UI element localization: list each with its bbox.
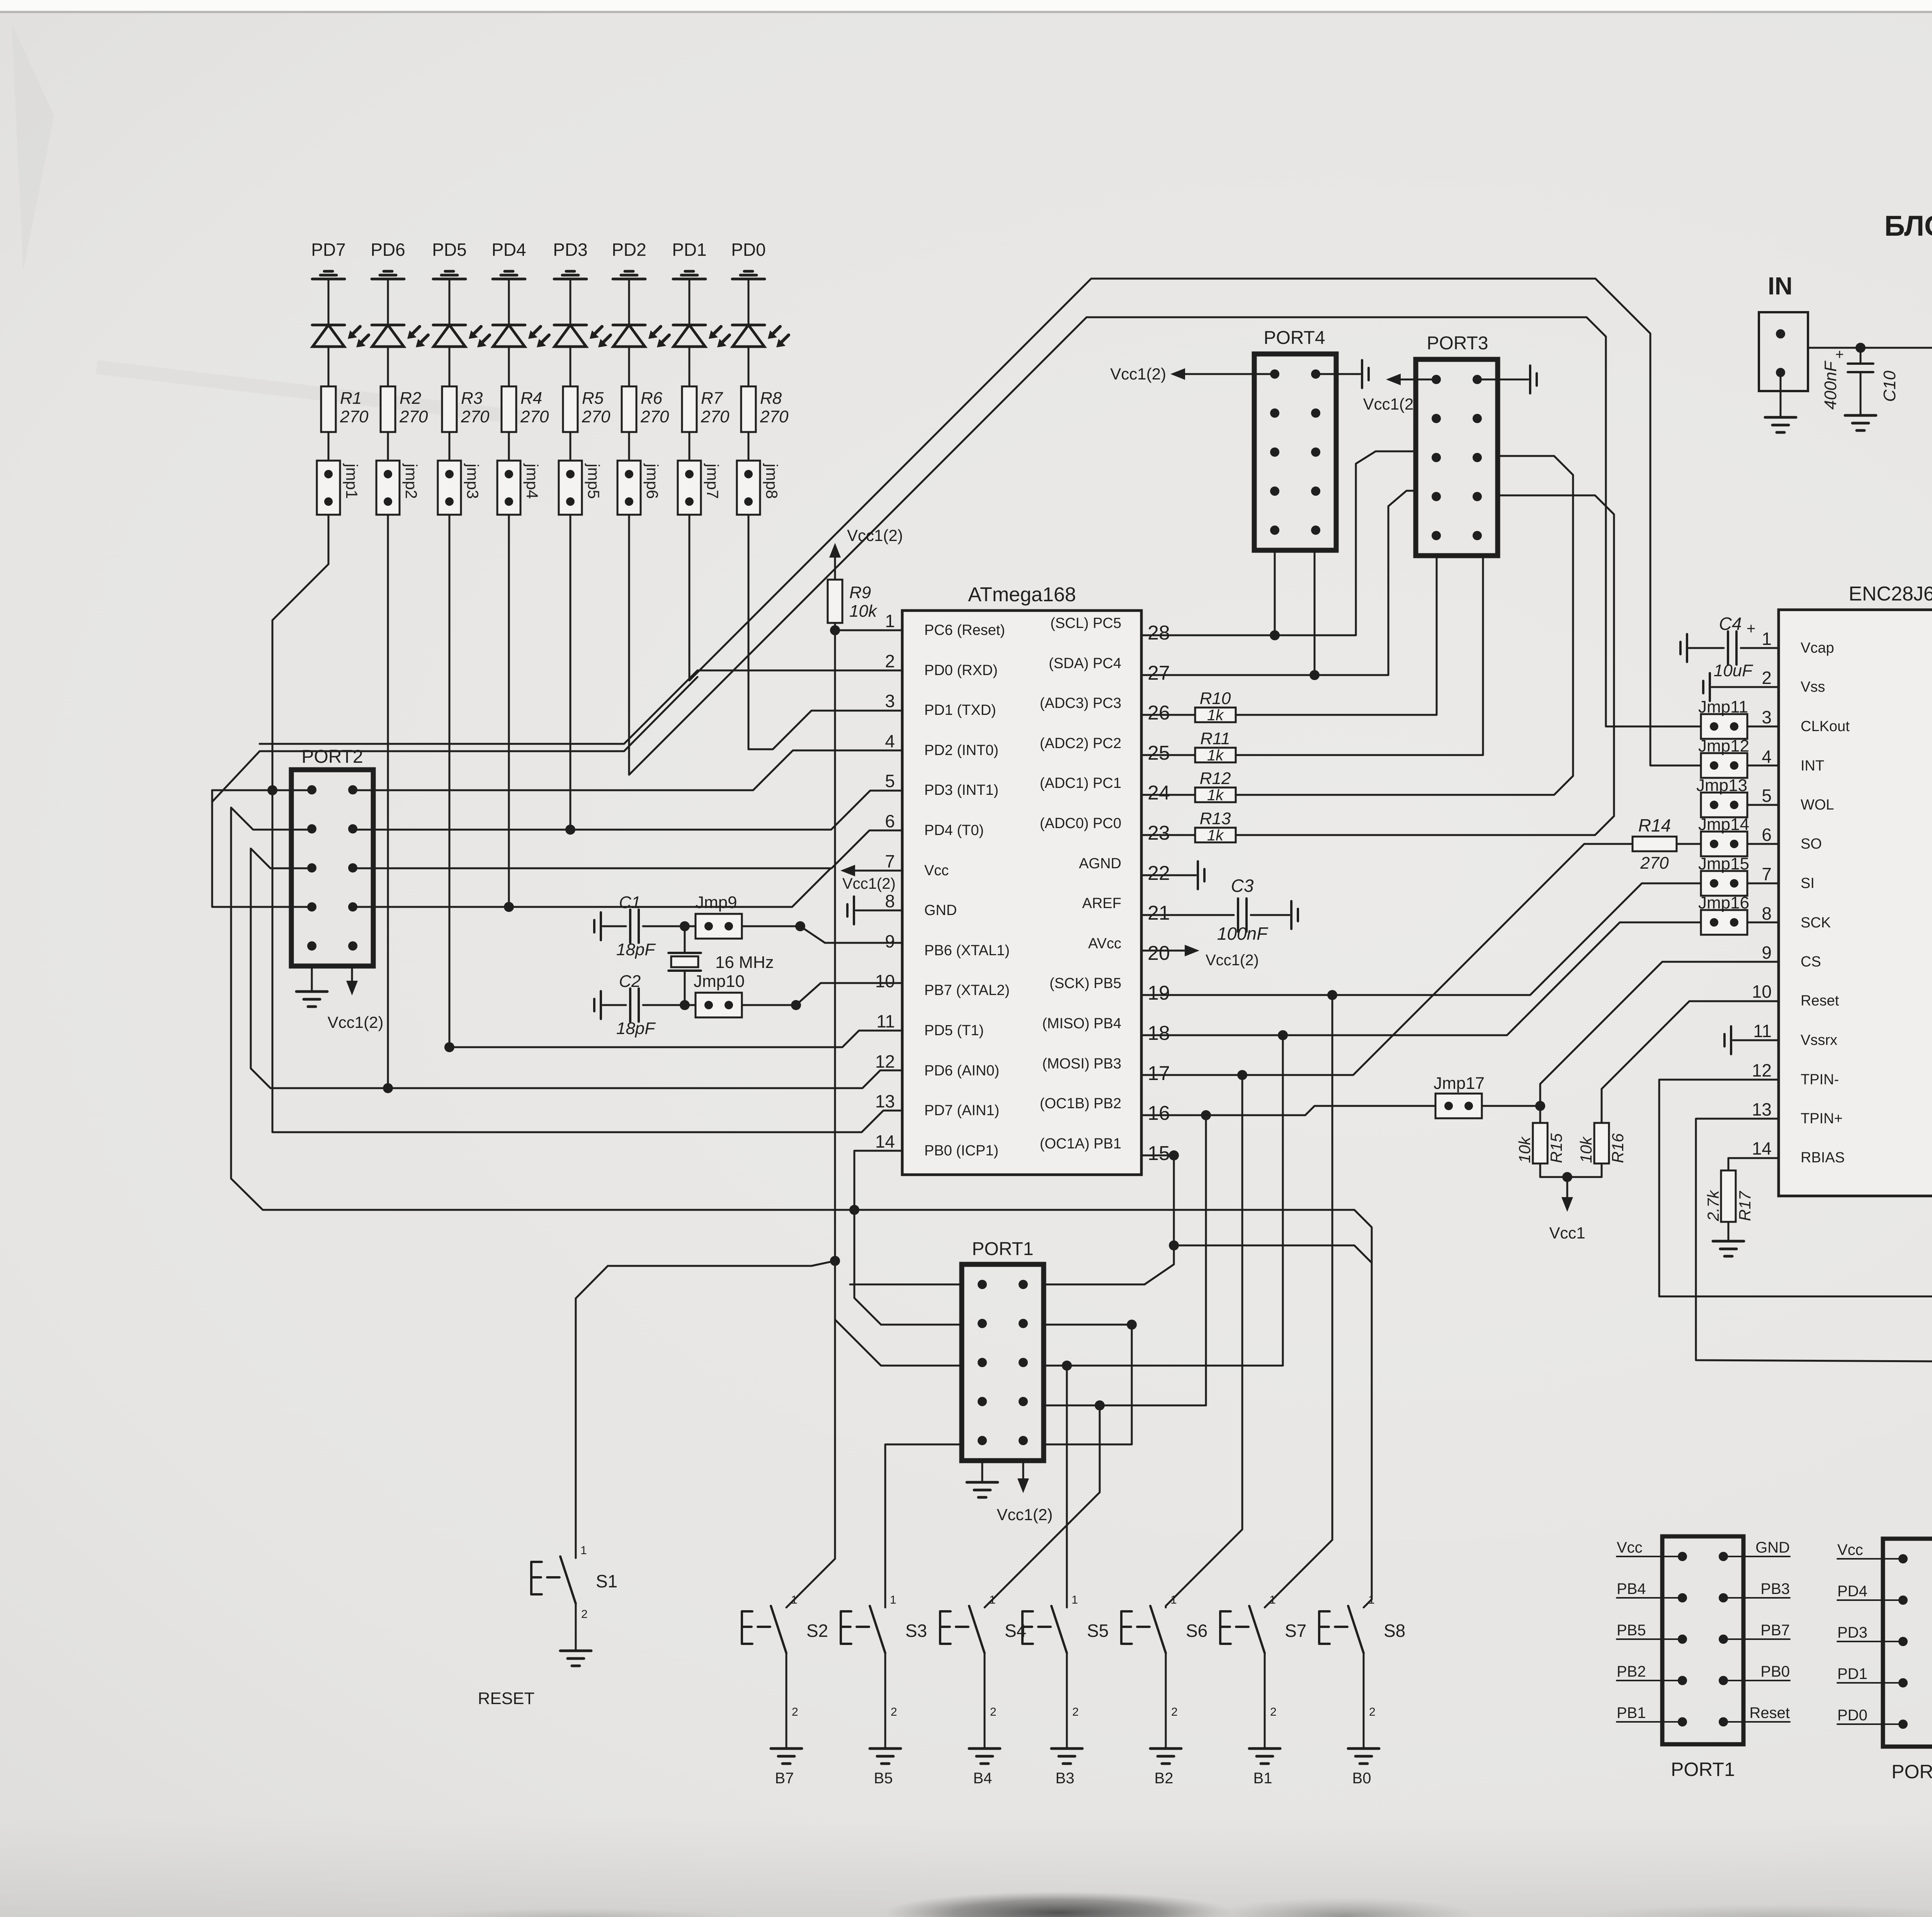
svg-text:1: 1: [890, 1594, 896, 1606]
jumper Jmp10: [696, 993, 742, 1017]
svg-text:PD0 (RXD): PD0 (RXD): [924, 662, 998, 679]
svg-text:PD1 (TXD): PD1 (TXD): [924, 702, 996, 718]
svg-text:(ADC3) PC3: (ADC3) PC3: [1040, 695, 1121, 711]
svg-text:+: +: [1835, 347, 1844, 363]
ground ENC pin2 Vss: [1709, 673, 1711, 701]
ground C1: [600, 912, 602, 940]
svg-text:PD5 (T1): PD5 (T1): [924, 1022, 984, 1039]
svg-text:SI: SI: [1801, 875, 1815, 891]
svg-text:GND: GND: [924, 902, 957, 919]
svg-text:R6: R6: [641, 389, 663, 408]
svg-text:270: 270: [1640, 854, 1669, 873]
wire R11 to PORT3 ADC2: [1236, 555, 1483, 755]
wire ATmega pin14 stub: [854, 1151, 902, 1210]
ground PD6 LED anode: [384, 270, 392, 273]
svg-text:RBIAS: RBIAS: [1801, 1150, 1845, 1166]
svg-text:(MOSI) PB3: (MOSI) PB3: [1042, 1056, 1121, 1072]
svg-text:PD2 (INT0): PD2 (INT0): [924, 742, 998, 759]
svg-text:(SCL) PC5: (SCL) PC5: [1050, 615, 1121, 631]
svg-text:1: 1: [885, 611, 895, 631]
svg-text:Jmp16: Jmp16: [1698, 893, 1749, 912]
ground S5: [1051, 1747, 1082, 1750]
junction: [1278, 1030, 1288, 1040]
jumper jmp6: [617, 461, 641, 515]
wire IN ground: [1780, 373, 1782, 417]
power Vcc1 below R15/R16: [1566, 1177, 1568, 1202]
svg-text:R16: R16: [1609, 1133, 1627, 1163]
svg-text:S7: S7: [1285, 1621, 1306, 1641]
svg-text:PB3: PB3: [1760, 1580, 1790, 1597]
power Vcc1(2) PORT2 pin10: [351, 966, 353, 985]
scan smudges bottom edge: [885, 1891, 1233, 1917]
wire: [748, 347, 750, 386]
svg-text:ENC28J60: ENC28J60: [1849, 583, 1932, 605]
svg-text:22: 22: [1148, 862, 1170, 885]
wire: [628, 432, 630, 461]
resistor R9 10k: [828, 580, 842, 623]
LED D1 (PD7): [312, 324, 345, 327]
wire ENC pin12 TPIN- loop: [1659, 1080, 1932, 1296]
wire PORT4 pin10 drop: [1314, 550, 1316, 675]
wire PORT4 pin2 to ground: [1316, 373, 1360, 375]
svg-text:1: 1: [989, 1594, 996, 1606]
wire pin27 SDA: [1141, 491, 1416, 675]
capacitor C4 10uF: [1686, 634, 1688, 662]
svg-text:1: 1: [1368, 1594, 1375, 1606]
svg-text:jmp3: jmp3: [464, 463, 482, 499]
wire pin19 SCK to Jmp15: [1141, 883, 1702, 995]
svg-text:PD3: PD3: [1837, 1624, 1867, 1641]
svg-text:1: 1: [1170, 1594, 1177, 1606]
svg-text:1k: 1k: [1207, 747, 1224, 764]
resistor R7 270: [682, 386, 697, 432]
svg-text:Vss: Vss: [1801, 679, 1825, 695]
svg-text:R1: R1: [340, 389, 362, 408]
wire R10 to PORT3 ADC3: [1236, 555, 1437, 715]
svg-text:11: 11: [1753, 1021, 1772, 1041]
junction: [1062, 1361, 1072, 1371]
resistor R17 2.7k: [1728, 1158, 1779, 1170]
wire PORT1 row1 left: [850, 1284, 962, 1286]
jumper jmp3: [438, 461, 461, 515]
junction: [791, 1000, 801, 1010]
svg-text:+: +: [1747, 620, 1755, 637]
svg-text:C4: C4: [1719, 614, 1742, 634]
svg-text:R2: R2: [400, 389, 421, 408]
svg-text:R15: R15: [1547, 1133, 1565, 1163]
wire ENC pin13 TPIN+ loop: [1696, 1119, 1932, 1363]
jumper Jmp16: [1701, 910, 1747, 935]
ground PORT2 pin9: [311, 966, 313, 992]
svg-text:18pF: 18pF: [616, 1019, 656, 1038]
junction: [1201, 1110, 1211, 1120]
pinout PORT2 label PD3: [1837, 1641, 1903, 1642]
svg-text:Vcc: Vcc: [1837, 1541, 1863, 1558]
wire Jmp9 to pin9: [742, 926, 902, 943]
wire ATmega pin8 GND: [856, 910, 902, 912]
svg-text:100nF: 100nF: [1217, 924, 1269, 944]
wire: [643, 1004, 696, 1006]
svg-text:270: 270: [399, 407, 428, 426]
wire: [748, 432, 750, 461]
svg-text:R7: R7: [701, 389, 723, 408]
wire: [603, 925, 626, 927]
svg-text:10k: 10k: [1515, 1136, 1534, 1163]
svg-text:C3: C3: [1231, 876, 1254, 896]
svg-text:PD1: PD1: [672, 240, 706, 260]
wire PORT2 row1 horizontal: [212, 789, 312, 791]
wire IN output: [1808, 347, 1932, 349]
jumper jmp2: [376, 461, 400, 515]
svg-text:4: 4: [1762, 747, 1772, 767]
jumper Jmp12: [1701, 753, 1747, 778]
svg-text:INT: INT: [1801, 758, 1824, 774]
LED D2 (PD6): [372, 324, 404, 327]
resistor R14 270: [1633, 837, 1677, 851]
ground ATmega pin8: [853, 896, 855, 924]
wire PORT2 row1 to ATmega pin4 (PD2/INT0): [212, 751, 624, 802]
svg-text:24: 24: [1148, 782, 1170, 804]
wire AREF pin21: [1141, 914, 1234, 916]
capacitor C3 100nF: [1237, 898, 1239, 932]
svg-text:2.7k: 2.7k: [1704, 1190, 1722, 1221]
svg-text:PD6 (AIN0): PD6 (AIN0): [924, 1063, 999, 1079]
svg-text:SO: SO: [1801, 836, 1822, 852]
svg-text:15: 15: [1148, 1142, 1170, 1165]
jumper Jmp15: [1701, 871, 1747, 896]
svg-text:PORT2: PORT2: [1891, 1761, 1932, 1783]
svg-text:TPIN-: TPIN-: [1801, 1072, 1839, 1088]
svg-text:CLKout: CLKout: [1801, 718, 1850, 735]
wire PORT1 row5 reset: [1043, 1325, 1132, 1444]
svg-text:PD4: PD4: [1837, 1583, 1867, 1600]
svg-text:(ADC0) PC0: (ADC0) PC0: [1040, 815, 1121, 832]
junction: [565, 825, 575, 835]
wire branch to S8 rail: [1174, 1245, 1372, 1263]
svg-text:2: 2: [990, 1706, 997, 1718]
pinout PORT1 label PB1: [1617, 1721, 1682, 1723]
svg-text:R10: R10: [1200, 689, 1231, 708]
wire: [570, 432, 571, 461]
wire pin19 drop to S7: [1265, 995, 1332, 1607]
svg-text:БЛОК ПИТАНИЯ: БЛОК ПИТАНИЯ: [1884, 210, 1932, 242]
wire Jmp17 to R15: [1482, 1105, 1540, 1107]
svg-text:(SCK) PB5: (SCK) PB5: [1049, 975, 1121, 992]
svg-text:16: 16: [1148, 1102, 1170, 1124]
svg-text:1: 1: [791, 1594, 798, 1606]
svg-text:R9: R9: [849, 583, 871, 602]
resistor R13 1k: [1141, 834, 1195, 836]
svg-text:jmp1: jmp1: [343, 463, 361, 499]
power AVcc pin20 Vcc1(2): [1141, 950, 1189, 952]
wire PORT2 row2 to ATmega pin5: [231, 808, 312, 830]
ground PD1 LED anode: [685, 270, 694, 273]
svg-text:(MISO) PB4: (MISO) PB4: [1042, 1015, 1121, 1032]
pinout PORT1 label PB7: [1723, 1638, 1790, 1640]
connector IN: [1759, 312, 1808, 391]
svg-text:AGND: AGND: [1079, 856, 1121, 872]
wire: [508, 347, 510, 386]
svg-text:400nF: 400nF: [1821, 361, 1840, 410]
svg-text:B0: B0: [1352, 1770, 1371, 1787]
ground ATmega AGND pin22: [1141, 874, 1196, 876]
wire pin18 MISO to Jmp16: [1141, 922, 1702, 1035]
ground S7: [1249, 1747, 1280, 1750]
svg-text:Vcc1(2): Vcc1(2): [1110, 365, 1166, 383]
pinout PORT1 label PB5: [1617, 1638, 1682, 1640]
power Vcc1(2) PORT3 pin1: [1396, 379, 1436, 381]
ground C10: [1845, 414, 1876, 417]
wire pin17 MOSI to R14: [1141, 844, 1633, 1075]
wire S6 to ground: [1165, 1653, 1167, 1749]
jumper Jmp13: [1701, 793, 1747, 817]
svg-text:270: 270: [461, 407, 490, 426]
wire: [628, 347, 630, 386]
capacitor C2 18pF: [629, 988, 631, 1022]
resistor R11 1k: [1141, 754, 1195, 756]
svg-text:R3: R3: [461, 389, 483, 408]
junction: [1270, 630, 1280, 640]
svg-text:PD3 (INT1): PD3 (INT1): [924, 782, 998, 798]
svg-text:1k: 1k: [1207, 707, 1224, 724]
svg-text:PB2: PB2: [1617, 1663, 1646, 1680]
svg-text:PD3: PD3: [553, 240, 587, 260]
junction: [680, 1000, 690, 1010]
svg-text:PB1: PB1: [1617, 1704, 1646, 1721]
ground C2: [600, 991, 602, 1019]
svg-text:1: 1: [580, 1544, 587, 1557]
wire PORT1 row5 left to S3: [885, 1444, 962, 1607]
ground PD0 LED anode: [744, 270, 753, 273]
pinout PORT2 label PD0: [1837, 1723, 1903, 1725]
svg-text:5: 5: [885, 771, 895, 791]
wire: [387, 347, 389, 386]
svg-text:1k: 1k: [1207, 827, 1224, 844]
svg-text:Vcc: Vcc: [1617, 1539, 1643, 1556]
ground PD2 LED anode: [625, 270, 633, 273]
svg-text:2: 2: [1171, 1706, 1178, 1718]
wire pin16 OC1B to Jmp17: [1141, 1106, 1435, 1115]
wire PD6 column: [387, 515, 389, 1088]
svg-text:IN: IN: [1768, 272, 1793, 300]
wire Jmp10 to pin10: [742, 983, 902, 1005]
junction: [444, 1042, 454, 1052]
wire pin15 OC1A: [1141, 1155, 1174, 1157]
resistor R2 270: [381, 386, 395, 432]
svg-text:25: 25: [1148, 742, 1170, 764]
wire: [449, 279, 451, 325]
junction: [504, 902, 514, 912]
wire: [328, 347, 330, 386]
wire: [570, 279, 571, 325]
svg-text:S5: S5: [1087, 1621, 1109, 1641]
svg-text:Jmp12: Jmp12: [1698, 737, 1749, 755]
junction: [795, 921, 805, 931]
wire PORT2 ring3 vertical: [251, 849, 902, 1088]
jumper jmp7: [678, 461, 701, 515]
svg-text:270: 270: [640, 407, 669, 426]
svg-text:Vcc1(2): Vcc1(2): [842, 875, 896, 892]
svg-text:PD7: PD7: [311, 240, 345, 260]
svg-text:PB5: PB5: [1617, 1622, 1646, 1639]
ground IN: [1765, 416, 1796, 419]
wire PORT3 pin2 to ground: [1477, 379, 1528, 381]
junction: [1169, 1150, 1179, 1160]
wire PORT2 ring2 vertical to pin14 rail: [231, 808, 1372, 1607]
resistor R12 1k: [1141, 794, 1195, 796]
svg-text:C1: C1: [619, 893, 641, 912]
ground S2: [771, 1747, 802, 1750]
power Vcc1(2) PORT4 pin1: [1180, 373, 1275, 375]
pinout PORT1 label PB0: [1723, 1680, 1790, 1681]
jumper Jmp9: [696, 914, 742, 939]
wire PD7 column jog: [272, 515, 328, 1132]
resistor R6 270: [622, 386, 636, 432]
svg-text:RESET: RESET: [478, 1689, 535, 1708]
svg-text:Jmp17: Jmp17: [1434, 1074, 1485, 1093]
svg-text:3: 3: [1762, 707, 1772, 727]
svg-text:2: 2: [1270, 1706, 1277, 1718]
svg-text:B3: B3: [1056, 1770, 1075, 1787]
LED D6 (PD2): [613, 324, 645, 327]
svg-text:26: 26: [1148, 702, 1170, 724]
wire pin2 long horizontal: [697, 670, 902, 672]
wire PD5 rail to ATmega pin11: [449, 1031, 902, 1047]
svg-text:16 MHz: 16 MHz: [715, 953, 774, 972]
ground S1: [560, 1650, 591, 1652]
svg-text:17: 17: [1148, 1062, 1170, 1085]
svg-text:B4: B4: [973, 1770, 992, 1787]
wire PORT2 outer ring vertical: [212, 790, 312, 907]
wire S1 branch: [576, 1261, 835, 1558]
svg-text:13: 13: [875, 1091, 895, 1111]
svg-text:jmp6: jmp6: [643, 463, 662, 499]
svg-text:B2: B2: [1155, 1770, 1173, 1787]
svg-text:Jmp15: Jmp15: [1698, 854, 1749, 873]
svg-text:WOL: WOL: [1801, 797, 1834, 813]
svg-text:PB0: PB0: [1760, 1663, 1790, 1680]
LED D4 (PD4): [493, 324, 525, 327]
LED D7 (PD1): [673, 324, 706, 327]
svg-text:18: 18: [1148, 1022, 1170, 1044]
wire R13 to PORT3 ADC1 loop: [1236, 495, 1614, 835]
junction: [1095, 1400, 1105, 1410]
wire R12 to PORT3 ADC0 loop: [1236, 456, 1573, 795]
svg-text:6: 6: [885, 811, 895, 831]
svg-text:Vcap: Vcap: [1801, 640, 1834, 656]
svg-text:PB7 (XTAL2): PB7 (XTAL2): [924, 982, 1010, 998]
junction: [1127, 1320, 1137, 1330]
svg-text:S6: S6: [1186, 1621, 1207, 1641]
junction: [1310, 670, 1320, 680]
svg-text:5: 5: [1762, 786, 1772, 806]
svg-text:R12: R12: [1200, 769, 1231, 788]
svg-text:23: 23: [1148, 822, 1170, 844]
svg-text:S8: S8: [1384, 1621, 1405, 1641]
pinout PORT2: [1883, 1539, 1932, 1747]
jumper jmp1: [317, 461, 340, 515]
svg-text:B7: B7: [775, 1770, 794, 1787]
resistor R10 1k: [1141, 714, 1195, 716]
svg-text:4: 4: [885, 731, 895, 751]
svg-text:9: 9: [1762, 942, 1772, 963]
ground C3: [1290, 901, 1293, 929]
svg-text:PD4 (T0): PD4 (T0): [924, 822, 984, 839]
svg-text:PORT1: PORT1: [1671, 1759, 1735, 1780]
jumper Jmp11: [1701, 714, 1747, 739]
svg-text:Jmp14: Jmp14: [1698, 815, 1749, 834]
svg-text:PB6 (XTAL1): PB6 (XTAL1): [924, 942, 1010, 959]
svg-text:3: 3: [885, 691, 895, 711]
wire: [603, 1004, 626, 1006]
pinout PORT2 label Vcc: [1837, 1558, 1903, 1560]
svg-text:PORT1: PORT1: [972, 1239, 1033, 1259]
svg-text:(SDA) PC4: (SDA) PC4: [1049, 655, 1121, 672]
wire: [387, 432, 389, 461]
svg-text:27: 27: [1148, 662, 1170, 684]
svg-text:Jmp10: Jmp10: [694, 972, 745, 991]
svg-text:S3: S3: [905, 1621, 927, 1641]
junction S1 branch: [830, 1256, 840, 1266]
jumper jmp4: [497, 461, 520, 515]
svg-text:270: 270: [760, 407, 789, 426]
svg-text:14: 14: [875, 1131, 895, 1152]
svg-text:7: 7: [885, 851, 895, 871]
ground PD7 LED anode: [324, 270, 333, 273]
svg-text:270: 270: [340, 407, 369, 426]
wire PORT2 row3 to ATmega pin12 rail: [251, 849, 312, 868]
wire S4 drop: [985, 1405, 1100, 1607]
resistor R3 270: [442, 386, 457, 432]
pinout PORT1 label PB2: [1617, 1680, 1682, 1681]
wire: [689, 279, 690, 325]
ground PORT1 pin9: [981, 1461, 983, 1482]
svg-text:PORT3: PORT3: [1427, 333, 1488, 354]
svg-text:CS: CS: [1801, 954, 1821, 970]
wire PORT4 pin9 drop: [1274, 550, 1276, 635]
svg-text:Vssrx: Vssrx: [1801, 1032, 1837, 1048]
svg-text:Vcc1: Vcc1: [1549, 1224, 1585, 1242]
svg-text:2: 2: [891, 1706, 897, 1718]
svg-text:jmp7: jmp7: [704, 463, 722, 499]
wire pin17 drop to S6: [1166, 1075, 1242, 1607]
svg-text:PD1: PD1: [1837, 1665, 1867, 1682]
resistor R16 10k: [1594, 1123, 1609, 1163]
pinout PORT1: [1662, 1536, 1743, 1744]
svg-text:2: 2: [581, 1608, 588, 1621]
svg-text:B1: B1: [1253, 1770, 1272, 1787]
wire R15/R16 common: [1540, 1176, 1602, 1178]
svg-text:PORT2: PORT2: [301, 747, 363, 767]
svg-text:Jmp9: Jmp9: [696, 893, 737, 912]
wire PD1 bus ring outer to Jmp12: [689, 279, 1702, 765]
resistor R5 270: [563, 386, 578, 432]
svg-text:2: 2: [792, 1706, 798, 1718]
junction: [383, 1083, 393, 1093]
svg-text:R8: R8: [760, 389, 782, 408]
svg-text:270: 270: [701, 407, 730, 426]
svg-text:PD4: PD4: [492, 240, 526, 260]
wire pin16 drop: [1205, 1115, 1207, 1405]
capacitor C10 400nF: [1860, 348, 1862, 364]
svg-text:R13: R13: [1200, 809, 1231, 828]
svg-text:21: 21: [1148, 902, 1170, 924]
resistor R1 270: [321, 386, 336, 432]
ground ENC pin11 Vssrx: [1730, 1026, 1732, 1054]
svg-text:270: 270: [582, 407, 611, 426]
ground PD5 LED anode: [445, 270, 454, 273]
svg-text:Vcc1(2): Vcc1(2): [1206, 952, 1259, 969]
